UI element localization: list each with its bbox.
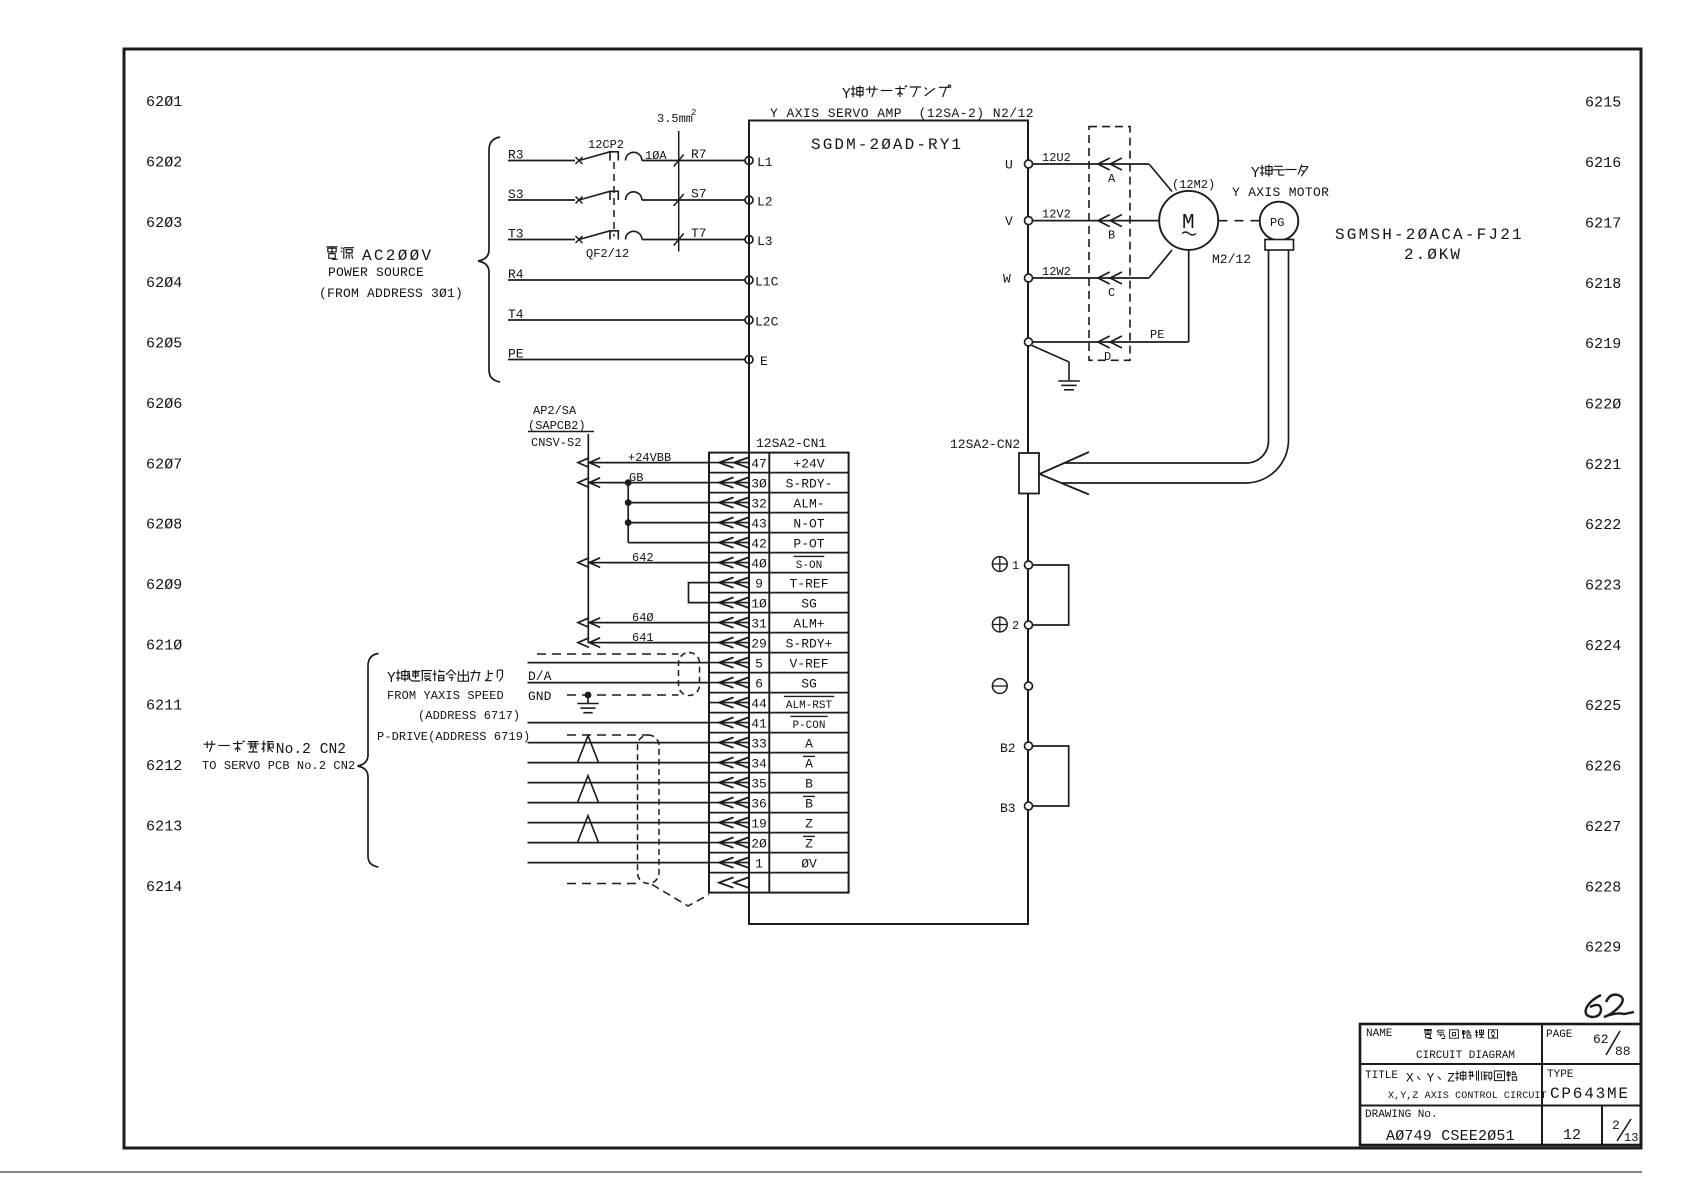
svg-text:M: M: [1182, 212, 1195, 235]
svg-text:12: 12: [1563, 1127, 1581, 1144]
pin 19 Z row: [709, 816, 813, 831]
right margin line-number labels 6215-6229: [1585, 95, 1621, 957]
shield dashed lead-in V-REF pair: [537, 653, 679, 655]
svg-text:2: 2: [1612, 1118, 1620, 1133]
wire R7 to servo amp: [642, 160, 745, 162]
svg-text:6: 6: [755, 676, 763, 691]
svg-text:X: X: [1406, 1071, 1414, 1086]
svg-text:19: 19: [751, 816, 767, 831]
svg-text:35: 35: [751, 776, 767, 791]
encoder connector box: [1265, 240, 1294, 251]
svg-text:CP643ME: CP643ME: [1550, 1085, 1630, 1103]
svg-text:62Ø8: 62Ø8: [146, 517, 182, 534]
node GND junction: [585, 692, 592, 699]
terminal W circle: [1025, 274, 1033, 282]
svg-text:622Ø: 622Ø: [1585, 396, 1621, 413]
svg-text:6214: 6214: [146, 879, 182, 896]
svg-text:Y AXIS MOTOR: Y AXIS MOTOR: [1232, 185, 1329, 200]
pin 4Ø S-ON row: [709, 556, 824, 572]
shield oval encoder cable (dashed): [638, 735, 660, 884]
twisted pair symbol: [578, 816, 599, 843]
protective earth ground symbol: [1032, 346, 1069, 363]
svg-text:B2: B2: [1000, 741, 1016, 756]
pin 43 N-OT row: [709, 516, 825, 531]
svg-text:47: 47: [751, 456, 767, 471]
svg-text:.: .: [293, 742, 302, 758]
wire T7 to servo amp: [642, 239, 745, 241]
svg-text:AØ749 CSEE2Ø51: AØ749 CSEE2Ø51: [1386, 1128, 1515, 1145]
svg-text:6216: 6216: [1585, 155, 1621, 172]
svg-text:44: 44: [751, 696, 767, 711]
svg-text:ØV: ØV: [801, 856, 817, 871]
svg-text:Y: Y: [387, 671, 396, 687]
svg-text:SG: SG: [801, 596, 817, 611]
label Y axis speed command output (kanji): [387, 670, 503, 688]
terminal L3 circle: [745, 236, 753, 244]
svg-text:2Ø: 2Ø: [751, 836, 767, 851]
svg-text:(FROM ADDRESS 3Ø1): (FROM ADDRESS 3Ø1): [319, 286, 463, 301]
pin 2Ø Z row: [709, 836, 815, 851]
svg-text:D: D: [1104, 350, 1111, 364]
svg-text:SGDM-2ØAD-RY1: SGDM-2ØAD-RY1: [811, 136, 963, 154]
svg-text:NAME: NAME: [1366, 1028, 1393, 1040]
svg-text:B: B: [805, 797, 813, 812]
svg-text:36: 36: [751, 796, 767, 811]
pin 3Ø S-RDY- row: [709, 476, 832, 491]
bus CNSV-S2 vertical: [587, 434, 589, 643]
svg-text:L1: L1: [757, 155, 773, 170]
svg-text:N: N: [276, 742, 285, 758]
pin 5 V-REF row: [709, 656, 829, 671]
terminal L1 circle: [745, 157, 753, 165]
terminal U circle: [1025, 160, 1033, 168]
cable pin arrow C: [1098, 272, 1122, 284]
svg-text:SGMSH-2ØACA-FJ21: SGMSH-2ØACA-FJ21: [1335, 226, 1524, 244]
svg-text:L1C: L1C: [755, 275, 779, 290]
svg-text:Y: Y: [1427, 1071, 1435, 1086]
svg-text:PAGE: PAGE: [1546, 1029, 1573, 1041]
cable pin arrow A: [1098, 158, 1122, 170]
svg-text:5: 5: [755, 656, 763, 671]
svg-text:AC2ØØV: AC2ØØV: [362, 247, 433, 265]
wire encoder signal to pin row 15: [528, 742, 710, 744]
servo amp heading (kanji) Y axis servo amp: [842, 85, 951, 103]
svg-text:12SA2-CN1: 12SA2-CN1: [756, 436, 826, 451]
svg-text:62Ø6: 62Ø6: [146, 396, 182, 413]
svg-text:TITLE: TITLE: [1365, 1070, 1398, 1082]
svg-text:62Ø9: 62Ø9: [146, 577, 182, 594]
jumper T-REF to SG (pins 9-10): [689, 583, 710, 603]
breaker mechanical link dashed: [613, 162, 615, 237]
encoder PG circle: [1260, 202, 1299, 241]
svg-text:6223: 6223: [1585, 578, 1621, 595]
svg-text:2: 2: [302, 742, 311, 758]
shield dashed lead-in encoder cable: [567, 734, 648, 736]
svg-text:6222: 6222: [1585, 517, 1621, 534]
pin 41 P-CON row: [709, 716, 828, 732]
pin 47 +24V row: [709, 456, 825, 471]
svg-text:6213: 6213: [146, 818, 182, 835]
cable pin arrow D: [1098, 336, 1122, 348]
svg-text:C: C: [1108, 286, 1115, 300]
svg-text:T7: T7: [691, 226, 707, 241]
pin 1Ø SG row: [709, 596, 817, 611]
pin 35 B row: [709, 776, 813, 791]
svg-text:6212: 6212: [146, 758, 182, 775]
shield dashed lead-out encoder cable: [567, 883, 638, 885]
terminal V circle: [1025, 217, 1033, 225]
svg-text:1: 1: [1012, 559, 1019, 573]
pin 9 T-REF row: [709, 576, 829, 591]
svg-text:M2/12: M2/12: [1212, 252, 1251, 267]
svg-text:SG: SG: [801, 676, 817, 691]
circuit breaker QF2/12 pole R3 contact: [576, 157, 583, 164]
svg-text:6224: 6224: [1585, 638, 1621, 655]
svg-text:6229: 6229: [1585, 940, 1621, 957]
svg-text:(12M2): (12M2): [1172, 178, 1215, 192]
svg-text:N: N: [329, 742, 338, 758]
svg-text:S-ON: S-ON: [796, 560, 822, 572]
svg-text:AP2/SA: AP2/SA: [533, 404, 577, 418]
connector 12SA2-CN1 table frame: [709, 453, 849, 893]
svg-text:V-REF: V-REF: [789, 656, 828, 671]
svg-text:A: A: [805, 736, 813, 751]
svg-text:R7: R7: [691, 147, 707, 162]
svg-text:B3: B3: [1000, 801, 1016, 816]
wire size leader line with slashes: [678, 131, 680, 252]
svg-text:6227: 6227: [1585, 819, 1621, 836]
pin spare row: [719, 877, 749, 887]
svg-text:6225: 6225: [1585, 698, 1621, 715]
jumper B2-B3: [1033, 746, 1069, 806]
pin 29 S-RDY+ row: [709, 636, 833, 651]
svg-text:62Ø2: 62Ø2: [146, 155, 182, 172]
svg-text:P-DRIVE(ADDRESS 6719): P-DRIVE(ADDRESS 6719): [377, 730, 530, 744]
svg-text:B: B: [805, 776, 813, 791]
svg-text:E: E: [760, 354, 768, 369]
svg-text:1ØA: 1ØA: [645, 149, 667, 163]
wire encoder signal to pin row 16: [528, 762, 710, 764]
svg-text:W: W: [1003, 272, 1011, 287]
pin 34 A row: [709, 756, 815, 771]
connector 12SA2-CN2 box: [1019, 453, 1039, 494]
svg-text:A: A: [1108, 172, 1116, 186]
shield drain dashed tail to connector: [652, 885, 709, 907]
encoder cable outer run: [1062, 250, 1289, 483]
title block frame: [1360, 1024, 1641, 1145]
svg-text:88: 88: [1615, 1044, 1631, 1059]
twisted pair symbol: [578, 736, 599, 763]
svg-text:2: 2: [691, 108, 696, 118]
svg-text:9: 9: [755, 576, 763, 591]
svg-text:6228: 6228: [1585, 879, 1621, 896]
wire encoder signal to pin row 19: [528, 822, 710, 824]
svg-text:6215: 6215: [1585, 95, 1621, 112]
svg-text:62: 62: [1593, 1032, 1609, 1047]
svg-text:62Ø1: 62Ø1: [146, 94, 182, 111]
svg-text:PG: PG: [1270, 216, 1284, 230]
svg-text:TO SERVO PCB No.2 CN2: TO SERVO PCB No.2 CN2: [202, 759, 355, 773]
jumper plus1-plus2: [1033, 565, 1069, 625]
label servo board No.2 CN2 (kanji): [204, 741, 347, 759]
svg-text:12U2: 12U2: [1042, 151, 1071, 165]
svg-text:GND: GND: [528, 689, 552, 704]
svg-text:2: 2: [1012, 619, 1019, 633]
wire encoder signal to pin row 20: [528, 842, 710, 844]
svg-text:6221: 6221: [1585, 457, 1621, 474]
wire to P-CON (pin 41): [528, 722, 710, 724]
svg-text:Y AXIS SERVO AMP (12SA-2) N2/: Y AXIS SERVO AMP (12SA-2) N2/12: [770, 106, 1034, 121]
svg-text:34: 34: [751, 756, 767, 771]
pin 31 ALM+ row: [709, 616, 825, 631]
node GB junction: [625, 479, 632, 486]
pin 44 ALM-RST row: [709, 696, 834, 712]
pin 32 ALM- row: [709, 496, 825, 511]
shield oval V-REF pair (dashed): [679, 653, 700, 696]
svg-text:12V2: 12V2: [1042, 208, 1071, 222]
pin 33 A row: [709, 736, 813, 751]
svg-text:S7: S7: [691, 187, 707, 202]
svg-text:S-RDY-: S-RDY-: [786, 476, 833, 491]
svg-text:T-REF: T-REF: [789, 576, 828, 591]
svg-text:POWER SOURCE: POWER SOURCE: [328, 265, 424, 280]
label power source (kanji) 電源 AC200V: [326, 246, 354, 259]
svg-text:1Ø: 1Ø: [751, 596, 767, 611]
cable pin arrow B: [1098, 215, 1122, 227]
svg-text:ALM-RST: ALM-RST: [786, 700, 833, 712]
svg-text:N-OT: N-OT: [793, 516, 824, 531]
svg-text:33: 33: [751, 736, 767, 751]
svg-text:62Ø5: 62Ø5: [146, 336, 182, 353]
encoder PG link dashed: [1219, 220, 1260, 222]
pin 36 B row: [709, 796, 815, 811]
terminal minus circle and symbol: [992, 679, 1007, 694]
svg-text:FROM YAXIS SPEED: FROM YAXIS SPEED: [387, 689, 504, 703]
motor name (kanji) Y axis motor: [1251, 165, 1308, 183]
terminal plus-2 circle and symbol: [992, 617, 1007, 632]
signal ground symbol: [587, 695, 589, 704]
svg-text:3.5mm: 3.5mm: [657, 112, 693, 126]
svg-text:2: 2: [337, 742, 346, 758]
wire encoder signal to pin row 18: [528, 802, 710, 804]
svg-text:(ADDRESS 6717): (ADDRESS 6717): [418, 709, 520, 723]
svg-text:A: A: [805, 757, 813, 772]
svg-text:L2C: L2C: [755, 315, 779, 330]
svg-text:B: B: [1108, 229, 1115, 243]
wire to pin 32 ALM-: [628, 502, 709, 504]
svg-text:1: 1: [755, 856, 763, 871]
svg-text:32: 32: [751, 496, 767, 511]
svg-text:o: o: [285, 742, 294, 758]
wire to SG (pin 6): [528, 682, 710, 684]
svg-text:QF2/12: QF2/12: [586, 247, 629, 261]
svg-text:6217: 6217: [1585, 215, 1621, 232]
bus GB vertical: [627, 483, 629, 543]
svg-text:12SA2-CN2: 12SA2-CN2: [950, 437, 1020, 452]
svg-text:ALM-: ALM-: [793, 496, 824, 511]
svg-text:Z: Z: [805, 816, 813, 831]
wire 0V to pin 1: [528, 862, 710, 864]
terminal L2C circle: [745, 316, 753, 324]
svg-text:29: 29: [751, 636, 767, 651]
svg-text:62Ø7: 62Ø7: [146, 456, 182, 473]
motor 12M2 circle: [1159, 191, 1218, 250]
svg-text:C: C: [320, 742, 329, 758]
svg-text:3Ø: 3Ø: [751, 476, 767, 491]
terminal L2 circle: [745, 196, 753, 204]
encoder cable inner run: [1065, 250, 1269, 463]
svg-text:U: U: [1005, 158, 1013, 173]
svg-text:CIRCUIT DIAGRAM: CIRCUIT DIAGRAM: [1416, 1050, 1515, 1062]
svg-text:6219: 6219: [1585, 336, 1621, 353]
handwritten page number 62: [1586, 995, 1601, 1017]
svg-text:4Ø: 4Ø: [751, 556, 767, 571]
wire to pin 42 P-OT: [628, 542, 709, 544]
wire encoder signal to pin row 17: [528, 782, 710, 784]
svg-text:X,Y,Z AXIS CONTROL CIRCUIT: X,Y,Z AXIS CONTROL CIRCUIT: [1388, 1091, 1547, 1102]
wire S7 to servo amp: [642, 199, 745, 201]
svg-text:P-CON: P-CON: [792, 720, 825, 732]
svg-text:2.ØKW: 2.ØKW: [1404, 246, 1462, 264]
svg-text:V: V: [1005, 214, 1013, 229]
svg-text:L2: L2: [757, 195, 773, 210]
svg-text:42: 42: [751, 536, 767, 551]
svg-text:TYPE: TYPE: [1547, 1069, 1574, 1081]
svg-text:41: 41: [751, 716, 767, 731]
svg-text:L3: L3: [757, 234, 773, 249]
svg-text:S-RDY+: S-RDY+: [786, 636, 833, 651]
paper bottom scan line: [0, 1171, 1642, 1173]
svg-text:6211: 6211: [146, 698, 182, 715]
svg-text:ALM+: ALM+: [793, 616, 824, 631]
pin 6 SG row: [709, 676, 817, 691]
svg-text:6226: 6226: [1585, 759, 1621, 776]
svg-text:+24V: +24V: [793, 456, 824, 471]
wire to pin 43 N-OT: [628, 522, 709, 524]
svg-text:621Ø: 621Ø: [146, 637, 182, 654]
svg-text:43: 43: [751, 516, 767, 531]
svg-text:Z: Z: [1447, 1071, 1455, 1086]
pin 1 ØV row: [709, 856, 817, 871]
svg-text:Y: Y: [1251, 166, 1260, 182]
left margin line-number labels 6201-6214: [146, 94, 182, 896]
svg-text:P-OT: P-OT: [793, 536, 824, 551]
servo amp 12SA-2 box outline: [749, 121, 1028, 925]
svg-text:Z: Z: [805, 837, 813, 852]
circuit breaker QF2/12 pole T3 contact: [576, 236, 583, 243]
twisted pair symbol: [578, 776, 599, 803]
svg-text:31: 31: [751, 616, 767, 631]
terminal plus-1 circle and symbol: [992, 557, 1007, 572]
svg-text:13: 13: [1624, 1131, 1638, 1145]
pin 42 P-OT row: [709, 536, 825, 551]
connector 12SA2-CN2 cable arrow: [1040, 452, 1090, 495]
brace to servo PCB No.2 CN2 group: [358, 654, 379, 868]
motor cable connector dashed box: [1089, 127, 1130, 361]
svg-text:PE: PE: [1150, 328, 1164, 342]
terminal PE circle: [1025, 338, 1033, 346]
svg-text:12W2: 12W2: [1042, 265, 1071, 279]
terminal L1C circle: [745, 276, 753, 284]
svg-text:CNSV-S2: CNSV-S2: [531, 436, 581, 450]
svg-text:62Ø3: 62Ø3: [146, 215, 182, 232]
svg-text:62Ø4: 62Ø4: [146, 275, 182, 292]
svg-text:DRAWING No.: DRAWING No.: [1365, 1109, 1438, 1121]
brace power source group: [478, 137, 500, 382]
svg-text:Y: Y: [842, 87, 851, 103]
circuit breaker QF2/12 pole S3 contact: [576, 197, 583, 204]
svg-text:12CP2: 12CP2: [588, 138, 624, 152]
terminal E circle: [745, 356, 753, 364]
svg-text:6218: 6218: [1585, 276, 1621, 293]
